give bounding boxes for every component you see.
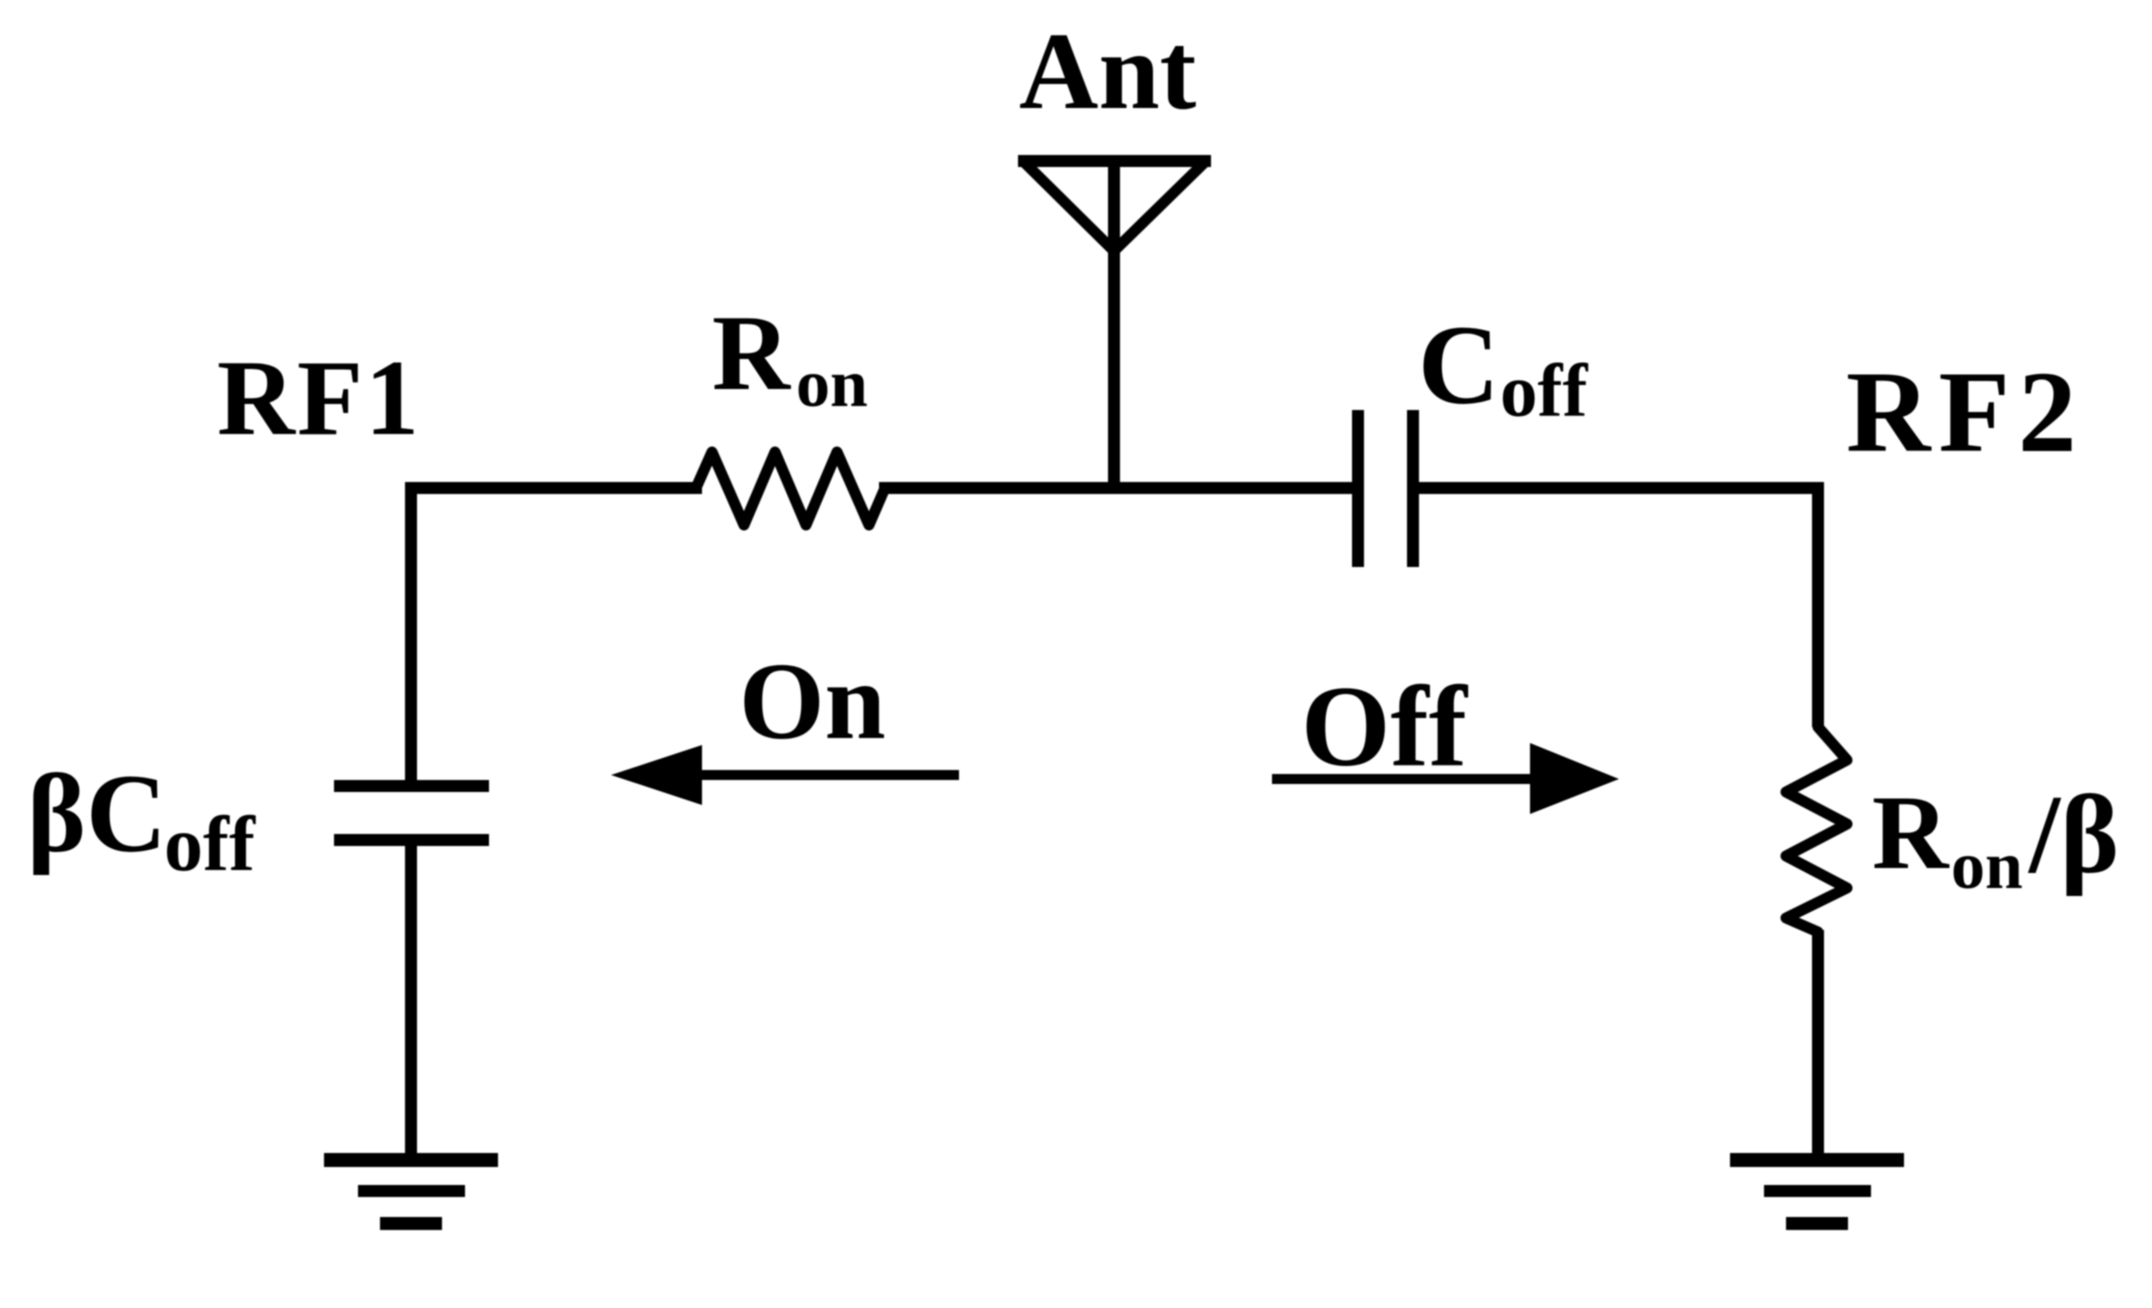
svg-text:C: C [1418,303,1500,428]
svg-text:Ant: Ant [1019,10,1197,132]
ground left [324,1153,498,1167]
wire: center horizontal segment to Coff [879,482,1357,494]
antenna right diagonal [1114,162,1205,251]
svg-text:off: off [1500,350,1588,433]
wire: RF1 horizontal segment [406,482,702,494]
svg-text:/β: /β [2027,773,2119,897]
svg-text:on: on [1951,827,2023,903]
resistor Ron/B zigzag [1786,727,1847,932]
svg-text:R: R [1872,774,1950,891]
svg-text:on: on [796,345,868,421]
svg-text:RF1: RF1 [217,339,421,458]
wire: horizontal segment Coff to RF2 corner [1413,482,1824,494]
wire: left vertical from BCoff down to ground [405,846,417,1160]
arrow On (points left) [700,770,959,780]
svg-text:RF2: RF2 [1846,348,2084,477]
ground right [1730,1153,1904,1167]
wire: left vertical from RF1 node down to BCoff [405,482,417,780]
antenna stem wire [1108,161,1120,494]
resistor Ron zigzag [696,452,885,525]
capacitor Coff right plate [1407,410,1419,567]
svg-text:βC: βC [27,752,167,876]
wire: right vertical from RF2 corner down to Ron/B [1812,482,1824,727]
svg-text:R: R [712,294,791,413]
antenna ANT symbol: top bar [1018,155,1211,167]
capacitor Coff left plate [1352,410,1364,567]
capacitor BCoff top plate [334,780,489,792]
capacitor BCoff bottom plate [334,834,489,846]
arrow Off (points right) [1272,774,1532,784]
antenna left diagonal [1024,162,1114,251]
wire: right vertical from Ron/B down to ground [1812,930,1824,1160]
svg-text:off: off [164,800,256,887]
svg-text:Off: Off [1301,663,1469,790]
svg-text:On: On [739,640,886,762]
